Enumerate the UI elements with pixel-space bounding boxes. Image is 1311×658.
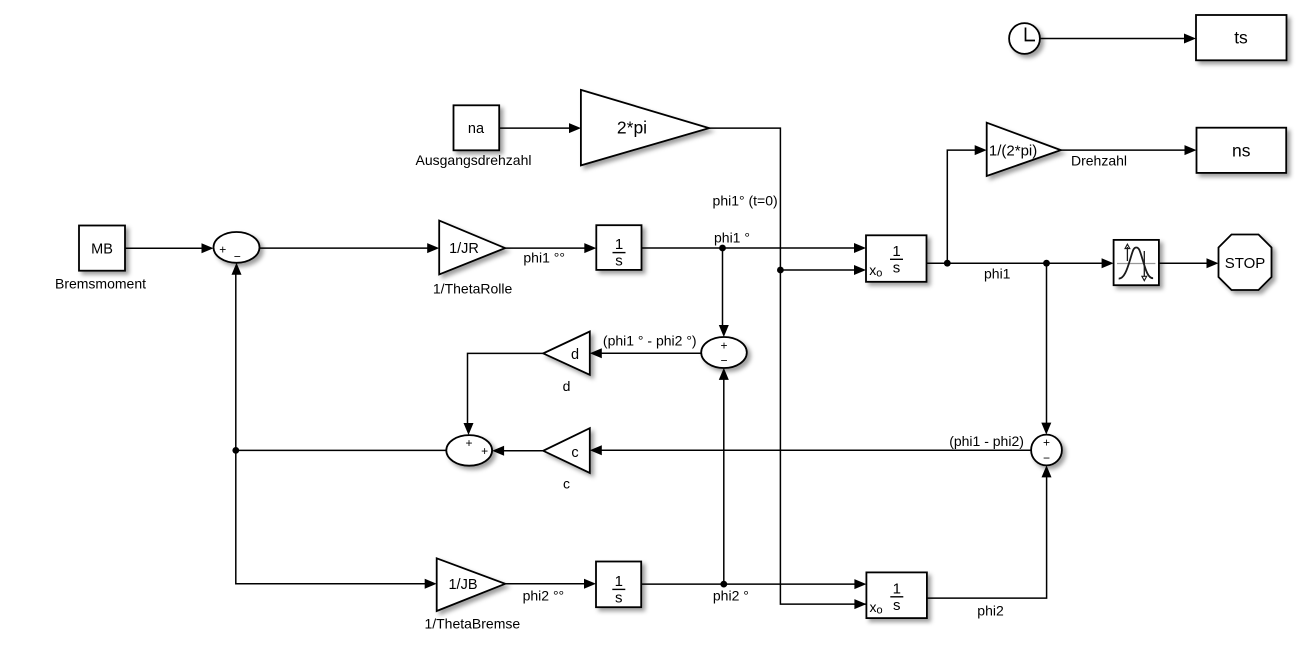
svg-text:1: 1: [615, 236, 623, 253]
integrator I1 1/s: [596, 225, 641, 270]
svg-text:1/JB: 1/JB: [448, 577, 477, 593]
wire node down to gain 1/JB: [236, 450, 437, 588]
svg-text:o: o: [876, 268, 882, 280]
svg-text:s: s: [615, 589, 623, 606]
gain 1/JR: [439, 221, 505, 275]
svg-text:phi1 °°: phi1 °°: [523, 250, 565, 266]
svg-text:Drehzahl: Drehzahl: [1071, 153, 1127, 169]
wire node up to sum1 minus input: [232, 263, 242, 451]
node phi2 dot: [720, 581, 727, 588]
integrator I2 1/s: [596, 562, 641, 608]
svg-text:c: c: [563, 476, 570, 492]
sum S2 (+ -): [701, 337, 747, 368]
wire sum3 output to left node: [236, 449, 446, 451]
node phi1 to sum4: [1043, 260, 1050, 267]
wire na to 2*pi: [500, 123, 582, 133]
wire 1/s to integrator2 input: [642, 243, 867, 253]
wire sum1 to 1/JR: [260, 243, 440, 253]
wire 1/JB to integrator 1/s2: [505, 579, 596, 589]
svg-text:1/ThetaBremse: 1/ThetaBremse: [424, 616, 520, 632]
svg-text:ts: ts: [1234, 28, 1248, 48]
svg-text:x: x: [870, 599, 877, 615]
gain 1/(2*pi): [987, 123, 1061, 176]
svg-text:1/(2*pi): 1/(2*pi): [989, 143, 1037, 160]
svg-text:Ausgangsdrehzahl: Ausgangsdrehzahl: [416, 152, 532, 168]
svg-text:+: +: [219, 242, 226, 256]
inport na: [454, 105, 500, 150]
svg-text:ns: ns: [1232, 141, 1251, 161]
wire node down to sum4 plus: [1041, 263, 1051, 434]
wire integrator1 to hit crossing: [927, 258, 1114, 268]
node phi1 dot: [719, 245, 726, 252]
gain c: [543, 428, 590, 473]
svg-text:phi1 °: phi1 °: [714, 230, 750, 246]
svg-text:s: s: [893, 259, 901, 276]
svg-text:−: −: [720, 354, 727, 368]
svg-text:−: −: [234, 249, 241, 263]
node x_o branch: [777, 267, 784, 274]
svg-text:+: +: [720, 339, 727, 353]
wire node up to gain 1/(2*pi): [947, 145, 986, 263]
svg-text:na: na: [468, 121, 485, 137]
integrator U1 xo 1/s: [866, 235, 927, 281]
wire sum4 to gain c (feedback): [590, 445, 1031, 455]
wire phi2 dot up to sum2 minus: [719, 368, 729, 584]
svg-text:1/ThetaRolle: 1/ThetaRolle: [433, 280, 513, 296]
svg-text:x: x: [869, 262, 876, 278]
sum S4 (+ -) circle: [1031, 435, 1062, 466]
svg-text:+: +: [1043, 436, 1050, 450]
wire 1/JR to integrator 1/s: [505, 243, 596, 253]
wire gain d to sum3: [464, 353, 544, 435]
wire sum2 to gain d: [590, 348, 701, 358]
hit crossing block: [1114, 240, 1159, 285]
svg-text:Bremsmoment: Bremsmoment: [55, 276, 146, 292]
sum S1 (+ -): [214, 232, 260, 263]
wire gain c to sum3: [492, 446, 543, 456]
outport ts: [1196, 15, 1287, 60]
svg-text:phi2 °°: phi2 °°: [523, 588, 565, 604]
wire 1/(2*pi) to ns: [1061, 145, 1197, 155]
STOP block: [1219, 235, 1272, 291]
svg-text:(phi1 - phi2): (phi1 - phi2): [949, 433, 1024, 449]
wire MB to sum1: [125, 243, 214, 253]
svg-text:+: +: [465, 436, 472, 450]
svg-text:d: d: [563, 378, 571, 394]
svg-text:phi2 °: phi2 °: [713, 588, 749, 604]
svg-text:+: +: [481, 444, 488, 458]
gain 2*pi: [581, 90, 709, 165]
wire clock to ts: [1040, 34, 1196, 44]
node feedback branch: [232, 447, 239, 454]
outport ns: [1197, 128, 1287, 173]
svg-text:1: 1: [893, 581, 901, 598]
svg-text:1: 1: [615, 573, 623, 590]
svg-text:(phi1 ° - phi2 °): (phi1 ° - phi2 °): [603, 333, 697, 349]
wire branch to integrator1 x_o: [780, 265, 866, 275]
wire hit crossing to STOP: [1159, 258, 1219, 268]
svg-text:s: s: [615, 253, 623, 270]
inport MB: [79, 226, 125, 271]
svg-text:1/JR: 1/JR: [449, 241, 479, 257]
svg-text:MB: MB: [91, 241, 113, 257]
node to 1/(2*pi): [944, 260, 951, 267]
sum S3 (+ +): [446, 435, 492, 466]
gain 1/JB: [437, 558, 506, 611]
svg-text:−: −: [1043, 451, 1050, 465]
svg-text:phi1: phi1: [984, 266, 1011, 282]
wire phi1 dot down to sum2: [719, 248, 729, 337]
clock block: [1009, 23, 1040, 54]
integrator U2 xo 1/s: [866, 572, 927, 618]
svg-text:o: o: [877, 605, 883, 617]
svg-text:STOP: STOP: [1225, 255, 1266, 272]
svg-text:phi1° (t=0): phi1° (t=0): [713, 193, 778, 209]
svg-text:2*pi: 2*pi: [617, 118, 647, 138]
svg-text:d: d: [571, 347, 579, 363]
wire integrator2 to sum4 minus: [927, 465, 1052, 598]
svg-text:s: s: [893, 597, 901, 614]
svg-text:phi2: phi2: [977, 603, 1004, 619]
svg-text:1: 1: [892, 243, 900, 260]
svg-text:c: c: [571, 445, 578, 461]
gain d: [543, 332, 590, 375]
wire 1/s2 to integrator2 input: [641, 579, 866, 589]
wire 2*pi output to x_o feed: [709, 128, 866, 609]
